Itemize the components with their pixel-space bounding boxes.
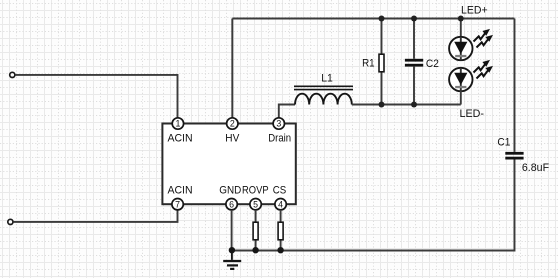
svg-text:1: 1 <box>175 119 180 129</box>
svg-text:6.8uF: 6.8uF <box>522 162 550 174</box>
svg-text:5: 5 <box>253 199 258 209</box>
junction dot pin6/ground <box>229 247 235 253</box>
junction dot bottom rail / R1 <box>379 102 385 108</box>
junction dot top rail / C2 <box>411 16 417 22</box>
wire pin 3 to inductor <box>279 105 295 118</box>
right rail wire (top to C1) <box>514 19 516 152</box>
svg-text:CS: CS <box>273 185 287 197</box>
svg-text:ACIN: ACIN <box>167 185 192 197</box>
junction dot R2/bottom rail <box>252 247 258 253</box>
right rail wire (C1 to bottom rail) <box>232 160 515 251</box>
inductor L1 <box>294 86 353 104</box>
junction dot R3/bottom rail <box>277 247 283 253</box>
junction dot top rail / LED string <box>458 16 464 22</box>
svg-text:ROVP: ROVP <box>242 185 269 197</box>
junction dot top rail / R1 <box>379 16 385 22</box>
svg-text:4: 4 <box>278 199 283 209</box>
wire upper terminal to pin 1 <box>15 75 177 118</box>
IC U1 body <box>162 124 295 205</box>
capacitor C2 <box>405 19 423 105</box>
svg-text:R1: R1 <box>362 58 375 70</box>
wire top rail to LED D1 <box>460 19 462 38</box>
pin 3 <box>273 118 284 129</box>
pin 5 <box>250 199 261 210</box>
pin 2 <box>227 118 238 129</box>
svg-text:LED+: LED+ <box>461 4 488 16</box>
wire pin 2 to top rail <box>231 19 233 118</box>
terminal (AC input, lower) <box>8 219 13 224</box>
svg-text:2: 2 <box>230 119 235 129</box>
pin 6 <box>226 199 237 210</box>
svg-text:LED-: LED- <box>460 108 485 120</box>
resistor R2 (on pin 5) <box>253 210 258 251</box>
terminal (AC input, upper) <box>10 72 15 77</box>
svg-text:C2: C2 <box>426 58 439 70</box>
svg-text:6: 6 <box>229 199 234 209</box>
svg-text:ACIN: ACIN <box>167 133 192 145</box>
capacitor C1 <box>505 152 523 160</box>
svg-text:7: 7 <box>175 199 180 209</box>
pin 4 <box>275 199 286 210</box>
svg-text:Drain: Drain <box>268 133 291 145</box>
resistor R3 (on pin 4) <box>278 210 283 251</box>
LED D1 <box>449 29 493 60</box>
wire pin 6 to ground junction <box>231 210 233 251</box>
svg-text:L1: L1 <box>321 72 333 84</box>
wire LED D2 to bottom rail <box>460 91 462 105</box>
LED D2 <box>449 60 493 91</box>
svg-text:C1: C1 <box>497 136 510 148</box>
ground symbol <box>223 250 241 269</box>
pin 1 <box>172 118 183 129</box>
wire lower terminal to pin 7 <box>13 210 177 222</box>
pin 7 <box>172 199 183 210</box>
junction dot bottom rail / C2 <box>411 102 417 108</box>
svg-text:HV: HV <box>225 133 240 145</box>
svg-text:3: 3 <box>276 119 281 129</box>
resistor R1 <box>379 19 384 105</box>
top rail wire (LED+ net) <box>232 18 514 20</box>
svg-text:GND: GND <box>219 185 241 197</box>
bottom rail wire (LED- net) <box>352 104 461 106</box>
